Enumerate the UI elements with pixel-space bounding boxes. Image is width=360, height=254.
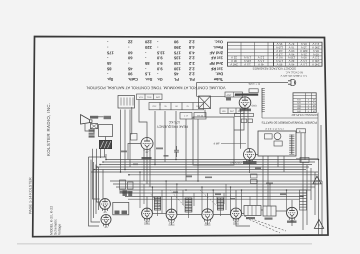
capacitor note C=1MF [248,82,260,86]
grid bias box [131,134,138,141]
ganged tuning dashed link 2 [246,218,280,233]
svg-text:45: 45 [106,61,111,66]
svg-text:VOL: VOL [139,96,144,99]
svg-text:290: 290 [173,45,180,50]
RF coil L4 [217,198,223,210]
svg-text:PEAK FREQUENCY: PEAK FREQUENCY [156,125,188,129]
C8 inner marks [267,206,271,216]
svg-text:OFF: OFF [152,105,157,108]
terminal box right [300,158,309,163]
antenna coil L1 [262,88,265,113]
svg-text:Rect.: Rect. [213,45,223,50]
RF coil L3 [185,198,192,212]
coupling unit windings [115,211,128,215]
condenser bank labels [246,217,297,223]
output tube V5 [101,215,111,227]
svg-text:VOLUME CONTROL AT MAXIMUM, TON: VOLUME CONTROL AT MAXIMUM, TONE CONTROL … [86,85,226,90]
tube socket voltage grid table [228,42,323,66]
output transformer top wire [93,129,95,133]
svg-text:SOCKET VOLTAGE READINGS: SOCKET VOLTAGE READINGS [253,67,296,71]
coil feed wires [158,210,221,218]
filter condenser bank C7 [244,206,261,216]
page bottom scan edge [17,243,312,244]
antenna wire [197,83,226,97]
right drop wire 1 [300,162,304,230]
control drop wire 1 [120,110,122,173]
stub wire 1 [139,172,141,208]
svg-text:175 V: 175 V [244,56,251,60]
parts list table [293,93,316,113]
transformer wire 3 [277,156,279,167]
switch strip S2 [149,103,204,110]
svg-text:37 V: 37 V [288,42,294,46]
7.5V winding label [265,127,284,130]
resistor block R4 [194,113,206,120]
right drop wire 5 [318,160,320,236]
svg-text:175 KC: 175 KC [168,120,180,124]
output stage wire 4 [104,149,106,157]
4MF condenser label [104,116,111,119]
chain grid wires [147,190,236,209]
strip drop wire 4 [185,119,187,181]
svg-text:45: 45 [103,210,107,214]
svg-text:45: 45 [127,66,132,71]
switch strip S1 [137,94,163,100]
svg-text:1.5: 1.5 [144,72,150,77]
svg-text:13.5: 13.5 [156,50,165,55]
bus wire A7 [128,174,318,176]
bus wire A2 [103,161,315,163]
bus wire B2 [113,183,319,185]
transformer primary circle [274,133,281,140]
peak frequency label (inverted) [156,120,188,128]
svg-text:7.5 V. C.T. 2.5 V.: 7.5 V. C.T. 2.5 V. [265,127,284,130]
wrap wire left 7 [89,156,107,158]
transformer wire 4 [283,156,285,172]
V2 plate wire [139,100,147,138]
AC supply note lines [280,71,307,77]
svg-text:E: E [299,130,301,133]
svg-text:4 MF: 4 MF [214,143,220,146]
svg-text:Sp.: Sp. [107,77,113,82]
stub wire 17 [256,181,258,206]
C7 inner marks [248,206,256,216]
svg-text:POWER TRANSFORMER 50 WATTS: POWER TRANSFORMER 50 WATTS [261,120,317,124]
detector drop wire 1 [240,109,242,149]
RF coil L2 [154,197,160,210]
stub wire 9 [201,187,203,215]
V2 cathode wire 1 [143,149,145,181]
voltage divider R11 [300,190,307,210]
bus wire A4 [97,166,309,168]
bus wire A5 [94,169,306,171]
output choke (hatched dark) T3 [99,140,111,148]
switch wire [204,110,206,118]
svg-text:95 V: 95 V [276,42,282,46]
scattered annotation labels [121,148,286,200]
power transformer caption (inverted) [261,120,317,124]
svg-text:M: M [313,99,315,102]
svg-text:1st AF: 1st AF [210,56,223,61]
grid table caption [253,67,296,71]
svg-text:85: 85 [144,61,149,66]
oscillator label under V3 (dark) [243,161,257,164]
svg-text:130: 130 [173,66,180,71]
stub wire 8 [193,193,195,206]
ground symbol G2 [314,220,323,229]
svg-text:2.2: 2.2 [188,61,194,66]
coupler terminal blob [226,98,231,101]
oscillator wire 2 [249,161,251,174]
oscillator wire 1 [256,154,259,156]
svg-text:85: 85 [106,66,111,71]
svg-text:Fil.: Fil. [189,77,195,82]
line voltage box 1 [241,119,247,123]
wrap wire left 5 [98,167,100,210]
stub wire 10 [212,190,214,215]
detector drop wire 2 [234,109,244,130]
svg-text:2.2: 2.2 [188,56,194,61]
stub wire 12 [223,193,225,204]
oscillator tube V3 [244,149,256,163]
svg-text:220: 220 [144,40,151,45]
strip drop wire 5 [197,119,199,181]
stub wire 16 [249,197,251,206]
transformer wire 1 [262,156,264,206]
svg-text:45: 45 [104,225,108,229]
resistor block R3 [180,113,192,120]
leader wire to condenser [221,143,246,145]
svg-text:175: 175 [106,50,113,55]
strip drop wire 2 [164,111,166,162]
pri/sec labels [222,110,243,113]
detector drop wire 3 [247,108,249,149]
model label block [50,206,62,235]
svg-text:Pl.: Pl. [174,77,179,82]
power transformer unit T1 [258,131,296,156]
line voltage box 2 [248,119,253,123]
strip wire S1-S2 [159,104,161,106]
svg-text:45: 45 [173,72,178,77]
2nd RF tube V7 [166,209,177,222]
bus wire B5 [122,192,307,194]
V2 heater wire [149,149,151,188]
cathode bias marks under chain tubes [144,221,239,226]
filter condenser bank C8 [263,206,276,216]
svg-text:NAT: NAT [156,96,161,99]
svg-text:2.2: 2.2 [188,40,194,45]
svg-text:2nd AF: 2nd AF [209,50,223,55]
svg-text:2.2: 2.2 [188,66,194,71]
ground symbol G1 [313,176,321,184]
svg-text:4.9: 4.9 [188,50,194,55]
voice coil resistor stack [89,129,95,137]
ganged tuning dashed link 1 [241,215,286,231]
svg-text:PAGE 1-14 KOLSTER: PAGE 1-14 KOLSTER [29,177,33,214]
grid condenser C4 [174,146,179,157]
E tap wire [300,133,302,162]
coupler label strip below tube [240,109,252,112]
bus wire B1 [110,180,322,182]
wrap wire left 3 [93,162,95,218]
bus wire A3 [100,164,312,166]
stub wire 6 [176,184,178,215]
field coil wire [105,137,107,141]
chain wire 2 [177,214,231,216]
wrap wire left 4 [95,165,97,215]
svg-text:PRI: PRI [222,110,226,113]
svg-text:4.8: 4.8 [188,45,194,50]
svg-text:Voltage: Voltage [58,224,62,235]
bus wire B6 [125,196,303,198]
table footnote (inverted) [86,85,226,90]
block bottom wire [296,158,319,160]
svg-text:ANT: ANT [227,94,232,97]
bus wire A1 [106,159,318,161]
wrap wire left 6 [102,170,104,199]
svg-text:60: 60 [127,56,132,61]
ganged tuning dashed link 3 [150,190,218,208]
output tube V4 [100,199,111,212]
svg-text:9.0: 9.0 [156,56,162,61]
right drop wire 6 [321,181,323,235]
wrap wire left 2 [91,160,100,223]
transformer wire 2 [267,156,269,206]
svg-text:M: M [313,110,315,113]
svg-text:2.4 V: 2.4 V [312,42,319,46]
right top wire [262,113,318,160]
svg-text:220: 220 [144,45,151,50]
svg-text:Cath.: Cath. [128,77,138,82]
chain wire 4 [276,210,287,212]
svg-text:TON: TON [147,96,152,99]
chain wire 1 [152,213,166,215]
svg-text:2.2: 2.2 [188,72,194,77]
stub wire 4 [161,190,163,214]
1st RF tube V6 [142,208,153,221]
oscillator box wire [131,107,133,135]
svg-text:2.2 V: 2.2 V [258,56,265,60]
filter choke box [265,134,273,139]
right drop wire 4 [314,172,316,215]
stub wire 5 [165,181,167,214]
svg-text:9.0: 9.0 [156,61,162,66]
svg-text:60: 60 [127,50,132,55]
stub wire 15 [241,190,243,214]
coupler terminal bar [235,113,254,116]
stub wire 14 [230,187,232,214]
svg-text:9.0: 9.0 [156,66,162,71]
AC plug P1 [288,79,296,85]
bus wire A6 [91,171,318,173]
svg-text:Scr.: Scr. [145,77,152,82]
1st audio tube V2 [141,138,153,152]
svg-text:1st RF: 1st RF [210,66,223,71]
stub wire 3 [151,187,153,214]
V2 label dark [142,157,152,159]
svg-text:60 CYCLE A.C.: 60 CYCLE A.C. [285,71,303,74]
rectifier wires [291,200,293,226]
loudspeaker horn LS1 [81,115,92,124]
E TAP terminal box [297,129,306,133]
strip drop wire 1 [154,111,156,165]
primary/secondary cell strip [220,108,244,114]
V2 grid wire [128,144,141,149]
plug feed wire [197,82,289,84]
strip drop wire 3 [175,111,177,160]
svg-text:GND: GND [252,105,258,108]
schematic border frame [33,37,328,237]
svg-text:22: 22 [127,40,132,45]
speaker wire [85,124,89,131]
right drop wire 3 [310,168,312,200]
output stage wire 1 [93,149,100,199]
rectifier tube V10 [287,207,298,220]
svg-text:175: 175 [173,50,180,55]
svg-text:90: 90 [173,40,178,45]
stub wire 13 [225,184,227,210]
field supply unit box [99,125,113,137]
switch strip S1 labels [139,96,161,99]
right drop wire 9 [320,125,322,181]
V9 plate wire [236,219,250,226]
output transformer T2 (crossed) [91,124,98,129]
svg-text:2nd RF: 2nd RF [209,61,223,66]
ANT GND terminal labels [227,94,241,97]
output stage wire 3 [100,149,102,158]
coupler label strip (dark) [235,94,258,96]
output lead wire [98,116,103,118]
resistor strip small boxes [251,174,258,184]
grid table cell entries [230,42,319,67]
stub wire 7 [182,190,184,205]
band switch (crossed box) S3 [199,96,211,109]
chain wire 3 [242,210,264,214]
control drop wire 3 [129,110,131,168]
bias network wire [127,148,129,160]
rectifier filament resistor R10 [274,141,282,146]
V2 cathode wire 2 [146,151,148,185]
AERIAL label (inverted) [230,160,252,163]
tone control inner contacts [121,98,133,106]
svg-text:KOLSTER RADIO, INC.: KOLSTER RADIO, INC. [46,103,51,157]
primary/secondary label box [249,89,258,93]
wrap wire left 1 [89,154,107,226]
stub wire 2 [143,184,145,204]
bias resistor cluster R5 R6 [120,180,134,189]
R3 R4 labels [184,115,204,118]
ANT/GND terminal strip [225,92,243,97]
svg-text:M: M [313,104,315,107]
control drop wire 2 [124,110,126,170]
bias labels [120,191,133,194]
OUTPUT label (dark) [90,116,98,119]
svg-text:Osc.: Osc. [214,40,223,45]
svg-text:Tube: Tube [213,77,223,82]
stub wire 18 [269,184,271,206]
output stage wire 2 [97,149,100,202]
wire junction dots [93,159,319,198]
interstage coupling box [113,202,129,214]
svg-text:22 V: 22 V [231,56,237,60]
parts table caption [292,113,318,116]
bus wire B4 [119,189,311,191]
bus wire B3 [116,186,315,188]
3rd RF tube V8 [202,209,213,222]
switch strip S2 labels [152,105,200,108]
transformer secondary winding [289,135,294,155]
bus wire B7 [128,198,300,200]
coupling labels above [123,191,133,197]
right drop wire 2 [306,165,308,225]
svg-text:ANTENNA COUPLER: ANTENNA COUPLER [292,113,318,116]
shield can outline [193,117,234,165]
detector tube V9 [231,208,242,221]
parts table entries [297,99,315,113]
stub wire 11 [216,197,218,205]
svg-text:65 V: 65 V [301,42,307,46]
svg-text:135: 135 [173,56,180,61]
tone control box [118,96,135,109]
svg-text:Gr.: Gr. [157,77,163,82]
svg-text:130: 130 [173,61,180,66]
stub wire 19 [286,190,288,211]
svg-text:SEC: SEC [230,110,235,113]
svg-text:90: 90 [127,72,132,77]
right drop wire 7 [304,133,306,160]
voltage data table (printed inverted) [106,40,223,82]
detector tube V1 [239,97,251,110]
svg-text:Det.: Det. [215,72,223,77]
